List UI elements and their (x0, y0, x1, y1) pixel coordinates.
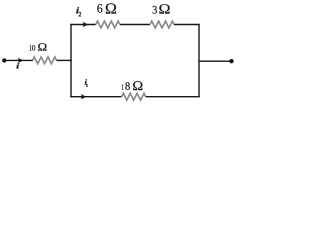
resistor R1 10 ohm (33, 57, 57, 64)
wire: between 6-ohm and 3-ohm resistors (120, 24, 150, 26)
wire: left vertical junction line (70, 24, 72, 98)
current arrow i1 (bottom branch) (81, 94, 87, 99)
node B (right terminal dot) (229, 59, 233, 63)
label 18 ohm: omega (133, 81, 142, 90)
resistor R2 6 ohm (96, 21, 120, 28)
node A (left terminal dot) (2, 58, 6, 62)
label 3 ohm: omega (159, 4, 169, 13)
resistor R4 18 ohm (122, 93, 146, 100)
current arrow i (main branch) (18, 58, 24, 63)
wire: top branch left segment (70, 24, 96, 26)
label i1: subscript 1 (86, 84, 88, 87)
label i1: letter i (85, 79, 87, 84)
label i main current (16, 63, 19, 68)
wire: 3-ohm resistor to right vertical (174, 24, 200, 26)
current arrow i2 (top branch) (83, 22, 89, 27)
label i2: subscript 2 (79, 12, 81, 16)
label 10 ohm: omega (38, 43, 46, 50)
label 3 ohm: digit 3 (153, 6, 157, 14)
label 10 ohm: digit 1 (30, 45, 32, 51)
label 6 ohm: digit 6 (97, 4, 102, 13)
wire: 10-ohm resistor to left junction (57, 59, 72, 61)
wire: left terminal to 10-ohm resistor (4, 59, 33, 61)
label 6 ohm: omega (106, 3, 116, 13)
label i2: letter i (76, 7, 79, 13)
wire: right vertical junction line (198, 24, 200, 98)
label 10 ohm: digit 0 (32, 45, 35, 51)
wire: right stub to output terminal (199, 60, 232, 62)
label 18 ohm: digit 8 (125, 82, 130, 90)
wire: bottom branch left segment (70, 96, 121, 98)
wire: 18-ohm resistor to right vertical (146, 96, 200, 98)
resistor R3 3 ohm (150, 21, 174, 28)
label 18 ohm: digit 1 (122, 84, 124, 90)
